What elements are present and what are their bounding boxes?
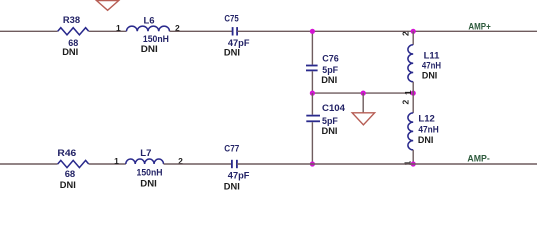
svg-text:2: 2 [401, 100, 411, 105]
svg-text:C76: C76 [322, 54, 339, 65]
wire top rail: C75 to right end (AMP+) [237, 30, 537, 32]
svg-text:DNI: DNI [60, 180, 76, 191]
svg-text:DNI: DNI [224, 48, 240, 59]
svg-text:L7: L7 [140, 148, 151, 159]
capacitor C76 [306, 66, 318, 71]
wire C76 branch vertical (top rail down to C76) [311, 31, 313, 64]
inductor L7 [126, 159, 164, 164]
wire R38 to L6 [89, 30, 127, 32]
wire top rail: left edge to R38 [0, 30, 58, 32]
junction mid node at ground stub [361, 91, 366, 96]
inductor L11 [408, 31, 413, 93]
wire R46 to L7 [89, 163, 126, 165]
svg-text:1: 1 [403, 90, 413, 95]
svg-text:R46: R46 [57, 148, 76, 159]
junction top rail / L11 [411, 29, 416, 34]
svg-text:AMP+: AMP+ [468, 21, 490, 31]
resistor R38 [58, 28, 89, 35]
wire mid node to C104 [311, 93, 313, 115]
svg-text:68: 68 [65, 169, 76, 180]
wire C104 to bottom rail [311, 122, 313, 164]
capacitor C77 [232, 160, 237, 168]
wire bottom rail: left edge to R46 [0, 163, 58, 165]
junction mid node at C76/C104 branch [310, 91, 315, 96]
resistor R46 [58, 160, 89, 167]
svg-text:47pF: 47pF [228, 171, 250, 182]
svg-text:AMP-: AMP- [467, 153, 489, 163]
svg-text:DNI: DNI [418, 135, 434, 146]
svg-text:150nH: 150nH [137, 168, 163, 179]
capacitor C104 [306, 116, 320, 122]
junction bottom rail / L12 [411, 161, 416, 166]
capacitor C75 [233, 27, 238, 35]
junction top rail / C76 branch [310, 29, 315, 34]
power symbol top (cut off at top edge) [97, 0, 119, 10]
svg-text:L12: L12 [418, 114, 434, 125]
wire L6 to C75 [170, 30, 233, 32]
svg-text:1: 1 [116, 23, 121, 33]
wire L7 to C77 [164, 163, 232, 165]
svg-text:DNI: DNI [141, 44, 158, 55]
svg-text:C75: C75 [224, 14, 239, 25]
wire C76 to mid node [311, 71, 313, 93]
wire bottom rail: C77 to right end (AMP-) [237, 163, 537, 165]
svg-text:C77: C77 [224, 144, 239, 155]
inductor L6 [127, 26, 170, 31]
svg-text:L6: L6 [144, 15, 155, 26]
svg-text:DNI: DNI [140, 178, 157, 189]
junction mid node at L11/L12 [411, 91, 416, 96]
inductor L12 [408, 93, 413, 164]
svg-text:DNI: DNI [322, 126, 338, 137]
svg-text:DNI: DNI [422, 71, 437, 82]
svg-text:1: 1 [114, 156, 119, 166]
svg-text:DNI: DNI [62, 47, 78, 58]
ground symbol (mid) [352, 113, 374, 125]
svg-text:C104: C104 [322, 103, 346, 114]
wire mid branch horizontal [312, 92, 413, 94]
wire ground stub [362, 93, 364, 113]
svg-text:DNI: DNI [321, 75, 337, 86]
junction bottom rail / C104 branch [310, 161, 315, 166]
svg-text:R38: R38 [63, 15, 80, 26]
svg-text:2: 2 [401, 31, 411, 36]
svg-text:DNI: DNI [224, 181, 240, 192]
